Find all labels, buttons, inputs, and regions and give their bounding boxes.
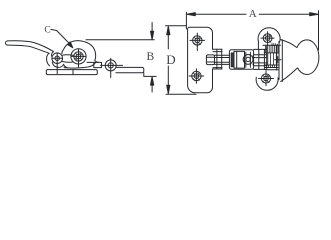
svg-text:D: D <box>166 52 175 67</box>
dimension A left extension line <box>185 12 187 29</box>
hinge tab / leaf on plate edge <box>206 49 229 69</box>
cam right tip block on base <box>87 62 102 67</box>
spring hatch middle band <box>268 53 277 64</box>
plate top screw hole <box>190 33 205 51</box>
links from housing to hinge <box>253 49 267 69</box>
right plate top lobe <box>258 28 280 45</box>
plate bottom screw hole <box>189 69 204 84</box>
spring hatch top band <box>266 46 278 53</box>
hinge pin center mark <box>275 57 281 63</box>
handle paddle (plan view) <box>281 40 319 82</box>
slide rods to housing <box>215 55 230 57</box>
spring hatch lower band <box>267 65 277 67</box>
cam follower hole (left view) <box>52 53 63 74</box>
dimension A line with arrows <box>187 13 318 16</box>
dimension D top arrow <box>167 26 170 49</box>
mounting plate (right view left plate) <box>188 27 213 93</box>
dimension B bottom arrow <box>151 77 154 92</box>
dimension D bottom extension line <box>166 93 196 95</box>
pivot hole (left view) <box>71 49 85 67</box>
label C leader <box>51 29 73 47</box>
catch bar (left view) <box>116 67 144 76</box>
dimension B top extension line <box>86 39 154 41</box>
hinge barrel with spring <box>258 40 282 82</box>
catch boss hole (left view) <box>101 58 123 77</box>
cam body outline <box>47 41 99 68</box>
svg-text:A: A <box>249 8 257 20</box>
base plate (left view) <box>46 70 97 75</box>
dimension D top extension line <box>166 25 187 27</box>
lever handle (side view) <box>6 41 54 57</box>
svg-text:C: C <box>44 26 50 36</box>
dimension A right extension line <box>318 11 320 50</box>
adjuster housing <box>229 50 253 70</box>
right plate bottom lobe <box>256 71 278 90</box>
dimension B bottom extension line <box>144 75 156 77</box>
dimension B top arrow <box>151 23 154 40</box>
dimension D bottom arrow <box>167 66 170 94</box>
svg-text:B: B <box>147 51 155 63</box>
